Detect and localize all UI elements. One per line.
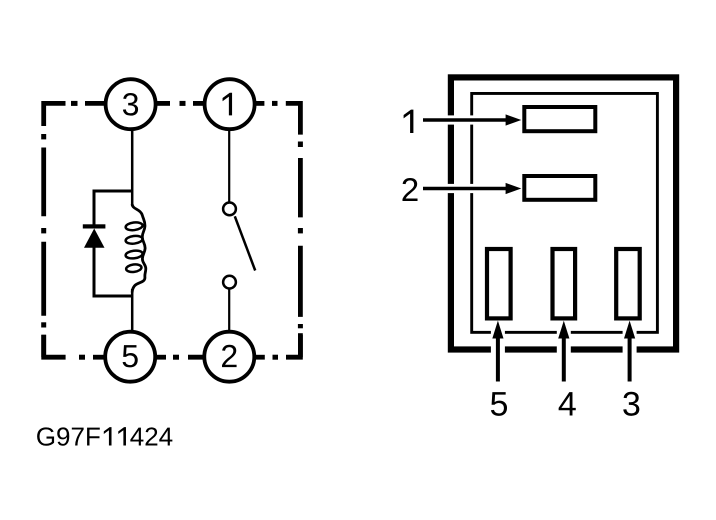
terminal circle pin 2	[204, 332, 254, 382]
cavity pin 1	[524, 107, 595, 131]
coil L1 loop 3	[125, 250, 143, 260]
coil L1 loop 2	[125, 235, 143, 245]
arrow to pin 2	[423, 183, 521, 194]
switch fixed contact lower	[223, 276, 236, 289]
terminal circle pin 1	[205, 79, 255, 129]
coil L1 body	[132, 204, 146, 293]
wire switch to pin2	[228, 289, 230, 333]
switch blade	[235, 216, 255, 270]
coil L1 loop 1	[125, 221, 143, 231]
cavity pin 4	[553, 249, 576, 318]
arrow to pin 1	[423, 114, 521, 125]
terminal circle pin 3	[106, 79, 156, 129]
switch fixed contact upper	[223, 203, 236, 216]
arrow to pin 4	[557, 321, 571, 382]
wire pin1 to switch	[228, 128, 230, 203]
figure id G97F11424	[37, 427, 172, 446]
enclosure dash-dot border left	[41, 134, 46, 357]
connector inner wall	[472, 93, 658, 332]
enclosure dash-dot border right	[298, 142, 303, 358]
label 2	[402, 178, 417, 201]
wire pin3 to coil	[131, 128, 134, 206]
wire diode branch bottom	[93, 295, 134, 298]
enclosure dash-dot border bottom	[44, 335, 301, 357]
arrow to pin 5	[491, 321, 505, 382]
terminal circle pin 5	[105, 332, 155, 382]
diode D1 triangle	[84, 229, 105, 248]
arrow to pin 3	[623, 321, 637, 382]
connector outer housing	[451, 77, 676, 349]
wire diode cathode lead	[93, 247, 96, 298]
wire coil to pin5	[131, 289, 134, 332]
wire diode branch top	[93, 190, 132, 193]
cavity pin 3	[616, 249, 640, 318]
enclosure dash-dot border top	[44, 103, 301, 134]
label 4	[559, 392, 576, 415]
cavity pin 2	[524, 176, 595, 200]
label 5	[491, 392, 507, 416]
wire diode anode lead	[93, 190, 96, 228]
coil L1 loop 4	[126, 264, 142, 273]
label 3	[623, 392, 639, 416]
cavity pin 5	[487, 249, 511, 318]
diode D1 cathode bar	[83, 224, 106, 228]
label 1	[404, 110, 414, 133]
